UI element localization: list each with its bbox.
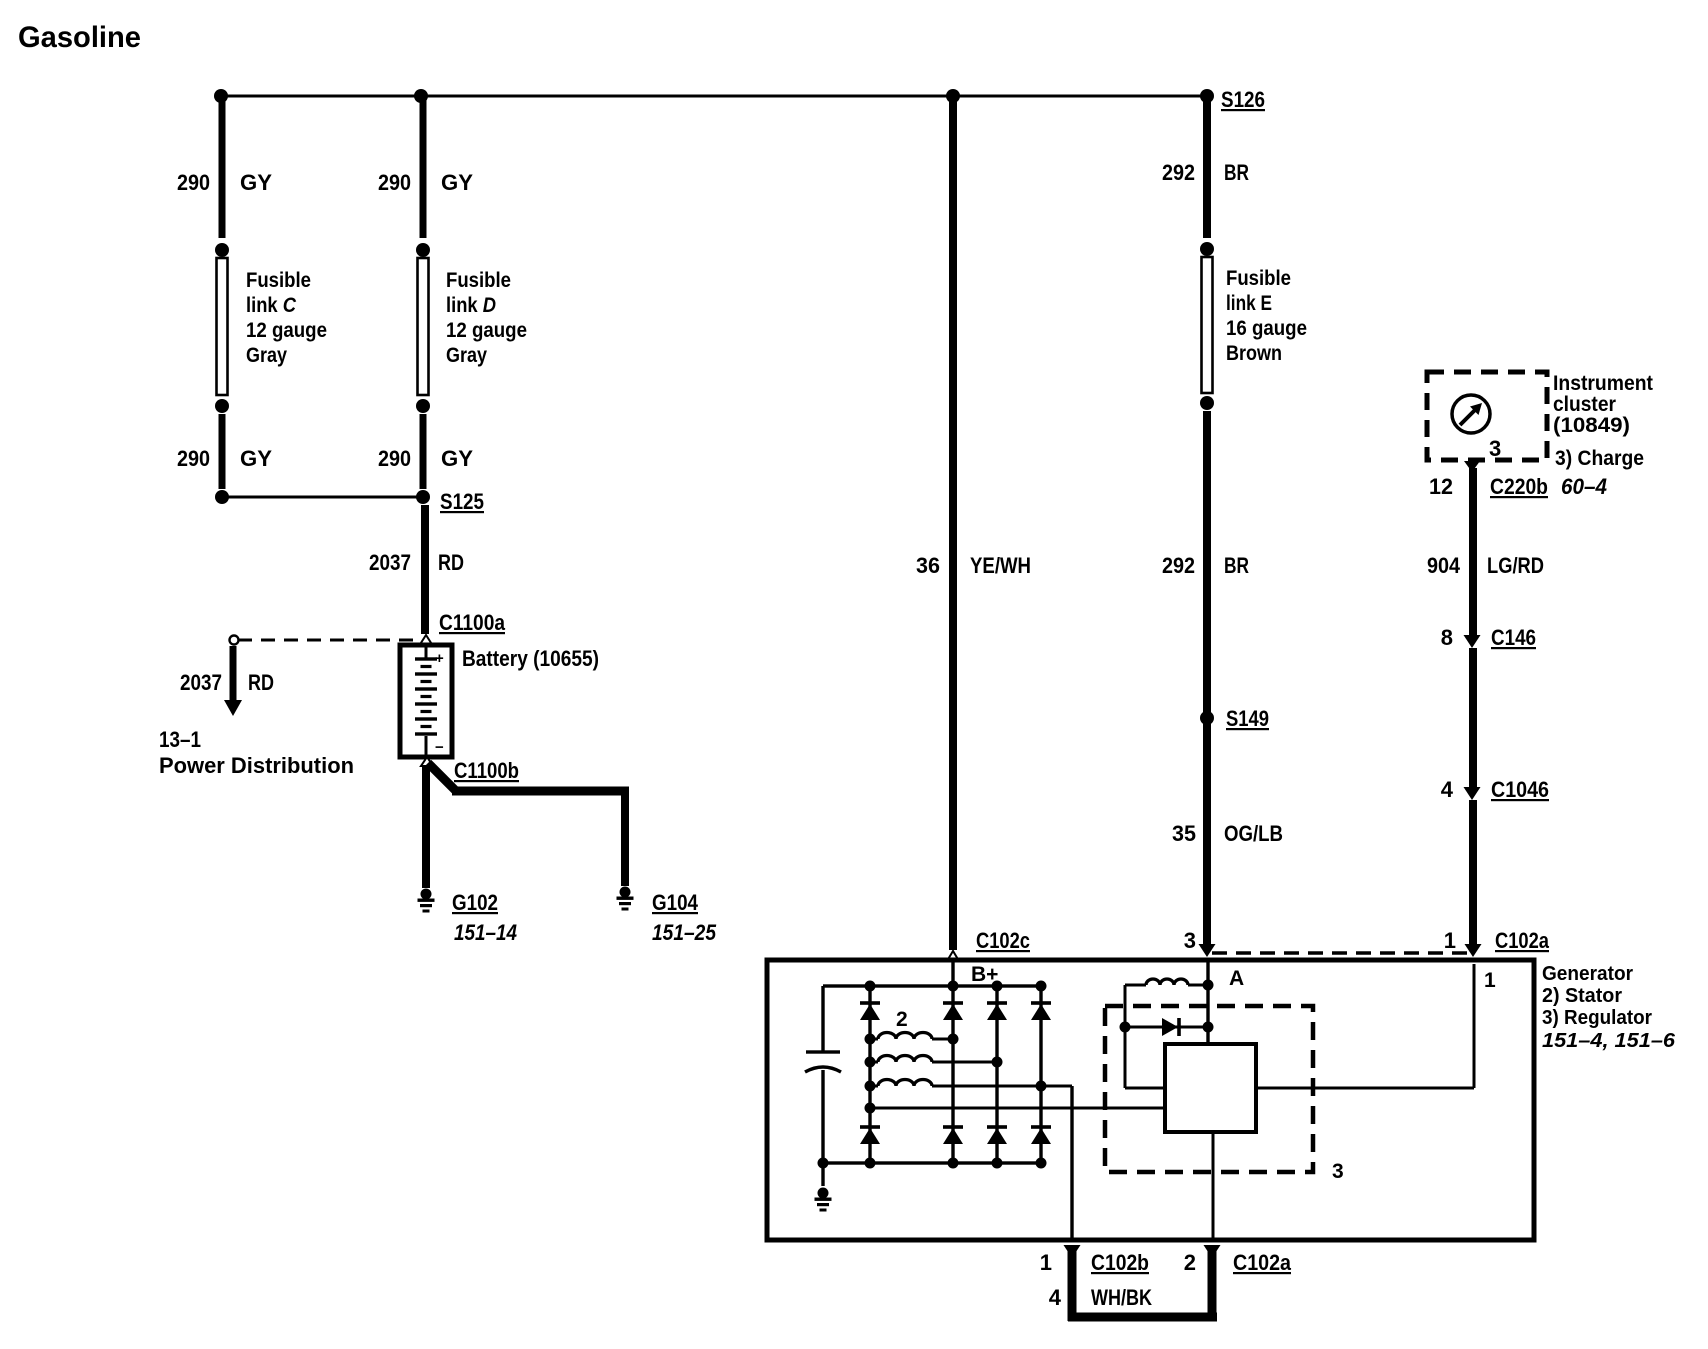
svg-text:904: 904 [1427, 553, 1461, 578]
svg-text:Gray: Gray [446, 344, 487, 367]
svg-text:Instrument: Instrument [1553, 372, 1653, 395]
svg-text:Power Distribution: Power Distribution [159, 753, 354, 778]
svg-text:290: 290 [177, 170, 210, 195]
svg-text:12 gauge: 12 gauge [246, 319, 327, 342]
svg-text:A: A [1229, 967, 1244, 990]
svg-text:2: 2 [1184, 1250, 1196, 1275]
svg-text:C220b: C220b [1490, 474, 1548, 499]
svg-text:WH/BK: WH/BK [1091, 1285, 1152, 1310]
svg-text:GY: GY [441, 446, 473, 471]
svg-text:151–14: 151–14 [454, 920, 517, 945]
svg-text:Generator: Generator [1542, 963, 1633, 985]
svg-text:36: 36 [916, 553, 940, 578]
svg-text:Brown: Brown [1226, 342, 1282, 365]
svg-text:4: 4 [1441, 777, 1454, 802]
svg-text:OG/LB: OG/LB [1224, 821, 1283, 846]
svg-text:GY: GY [240, 170, 272, 195]
svg-text:G102: G102 [452, 890, 498, 915]
svg-text:Fusible: Fusible [1226, 267, 1291, 290]
svg-text:link D: link D [446, 294, 496, 317]
svg-text:S149: S149 [1226, 706, 1269, 731]
svg-text:3: 3 [1184, 928, 1196, 953]
svg-text:Battery (10655): Battery (10655) [462, 646, 599, 671]
svg-text:290: 290 [177, 446, 210, 471]
svg-text:Gasoline: Gasoline [18, 21, 141, 54]
svg-text:−: − [435, 739, 444, 756]
svg-text:S125: S125 [440, 489, 484, 514]
svg-text:292: 292 [1162, 553, 1195, 578]
svg-text:12: 12 [1429, 474, 1453, 499]
svg-text:C1100a: C1100a [439, 610, 506, 635]
svg-text:3) Regulator: 3) Regulator [1542, 1007, 1652, 1029]
svg-text:3: 3 [1489, 436, 1501, 461]
svg-text:151–25: 151–25 [652, 920, 717, 945]
svg-text:YE/WH: YE/WH [970, 553, 1031, 578]
svg-text:2) Stator: 2) Stator [1542, 985, 1622, 1007]
svg-text:link E: link E [1226, 292, 1272, 315]
svg-text:60–4: 60–4 [1561, 474, 1607, 499]
svg-text:LG/RD: LG/RD [1487, 553, 1544, 578]
svg-text:G104: G104 [652, 890, 699, 915]
svg-text:cluster: cluster [1553, 393, 1616, 416]
svg-text:C1046: C1046 [1491, 777, 1549, 802]
svg-text:C102a: C102a [1233, 1250, 1292, 1275]
svg-text:C102a: C102a [1495, 928, 1550, 953]
svg-text:Fusible: Fusible [446, 269, 511, 292]
svg-text:16 gauge: 16 gauge [1226, 317, 1307, 340]
svg-text:1: 1 [1040, 1250, 1052, 1275]
svg-text:link C: link C [246, 294, 297, 317]
svg-text:BR: BR [1224, 160, 1249, 185]
svg-text:3: 3 [1332, 1160, 1344, 1183]
svg-text:1: 1 [1484, 969, 1496, 992]
svg-text:BR: BR [1224, 553, 1249, 578]
svg-text:2: 2 [896, 1008, 908, 1031]
svg-text:Gray: Gray [246, 344, 287, 367]
svg-text:4: 4 [1049, 1285, 1062, 1310]
svg-text:GY: GY [240, 446, 272, 471]
svg-text:8: 8 [1441, 625, 1453, 650]
svg-text:151–4, 151–6: 151–4, 151–6 [1542, 1030, 1676, 1052]
svg-text:RD: RD [248, 670, 274, 695]
svg-text:GY: GY [441, 170, 473, 195]
svg-text:C102c: C102c [976, 928, 1030, 953]
svg-text:S126: S126 [1221, 87, 1265, 112]
svg-text:35: 35 [1172, 821, 1196, 846]
svg-text:292: 292 [1162, 160, 1195, 185]
svg-text:12 gauge: 12 gauge [446, 319, 527, 342]
svg-text:3) Charge: 3) Charge [1555, 447, 1644, 470]
svg-text:2037: 2037 [180, 670, 222, 695]
svg-text:290: 290 [378, 446, 411, 471]
svg-text:2037: 2037 [369, 550, 411, 575]
svg-text:+: + [435, 650, 444, 667]
svg-text:Fusible: Fusible [246, 269, 311, 292]
svg-text:C1100b: C1100b [454, 758, 519, 783]
svg-text:C146: C146 [1491, 625, 1536, 650]
svg-text:13–1: 13–1 [159, 727, 201, 752]
svg-text:(10849): (10849) [1553, 414, 1630, 437]
svg-text:RD: RD [438, 550, 464, 575]
svg-text:C102b: C102b [1091, 1250, 1149, 1275]
svg-text:290: 290 [378, 170, 411, 195]
svg-text:1: 1 [1444, 928, 1456, 953]
